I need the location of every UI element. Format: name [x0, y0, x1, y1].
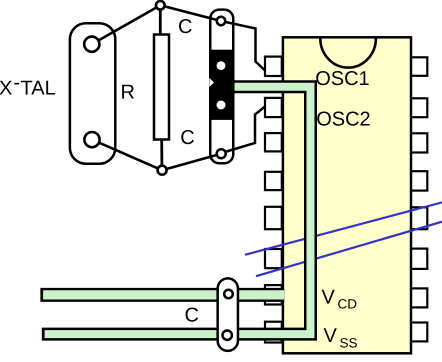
svg-text:V: V	[324, 325, 338, 347]
IC U1 right pins	[411, 57, 428, 341]
svg-text:CD: CD	[338, 297, 358, 312]
capacitor C1 pin	[217, 17, 225, 25]
C3 pin 2	[223, 331, 232, 340]
svg-text:C: C	[178, 16, 192, 38]
svg-text:C: C	[185, 304, 199, 326]
svg-text:R: R	[121, 82, 135, 104]
wire C2 to pin L2 (OSC2)	[227, 107, 266, 152]
C3 pin 1	[224, 290, 233, 299]
pin L7 (VCD)	[265, 285, 282, 304]
decoupling capacitor C3 package	[218, 278, 238, 351]
pin L4	[265, 172, 282, 190]
svg-text:V: V	[322, 287, 336, 309]
node A (top junction)	[156, 1, 165, 10]
pin R7	[411, 288, 428, 307]
pin R2	[411, 98, 428, 117]
pin R1	[411, 57, 428, 76]
svg-text:OSC2: OSC2	[316, 109, 370, 131]
crystal pin 1	[84, 37, 99, 52]
pin L8 (VSS)	[265, 322, 282, 343]
VCD trace (green)	[43, 290, 284, 299]
IC U1 body	[283, 37, 411, 353]
svg-text:TAL: TAL	[21, 78, 56, 100]
break line upper (blue)	[245, 202, 442, 254]
capacitor pair package (C/C)	[210, 10, 233, 164]
pin R8	[411, 323, 428, 342]
ground trace outline (resonator centre to VSS)	[42, 87, 311, 334]
svg-text:-: -	[13, 72, 20, 94]
pin R5	[411, 207, 428, 229]
pin R3	[411, 133, 428, 152]
capacitor package black body	[209, 50, 233, 120]
IC U1 left pins	[265, 57, 282, 343]
wire node1 to crystal pin	[92, 5, 161, 44]
wire node2 to capacitor C2 pin	[162, 154, 221, 171]
capacitor centre pin dot 2	[217, 101, 226, 110]
capacitor centre pin dot 1	[217, 61, 226, 70]
wire node1 to capacitor C1 pin	[160, 5, 221, 21]
pin L6	[265, 249, 282, 268]
pin L5	[265, 207, 282, 229]
VCD trace outline	[40, 288, 284, 302]
node B (bottom junction)	[158, 166, 167, 175]
IC notch	[320, 38, 376, 67]
ground trace (green)	[45, 87, 311, 334]
pin L1 (OSC1)	[265, 57, 282, 76]
wire node1 to resistor R	[159, 5, 162, 34]
wire C1 to pin L1 (OSC1)	[226, 22, 266, 71]
pin L3	[265, 133, 282, 151]
pin L2 (OSC2)	[265, 98, 282, 117]
wire resistor R to node2	[160, 140, 163, 167]
svg-text:SS: SS	[340, 336, 358, 351]
crystal pin 2	[84, 132, 99, 147]
capacitor C2 pin	[217, 149, 226, 158]
pin R4	[411, 171, 428, 190]
break line lower (blue)	[256, 222, 442, 277]
wire crystal pin to node2	[92, 140, 162, 171]
crystal X-TAL package	[70, 23, 115, 164]
svg-text:C: C	[180, 127, 194, 149]
pin R6	[411, 249, 428, 269]
svg-text:X: X	[0, 78, 12, 100]
svg-text:OSC1: OSC1	[315, 68, 369, 90]
notch on black body	[209, 78, 214, 87]
resistor R body	[154, 35, 169, 140]
